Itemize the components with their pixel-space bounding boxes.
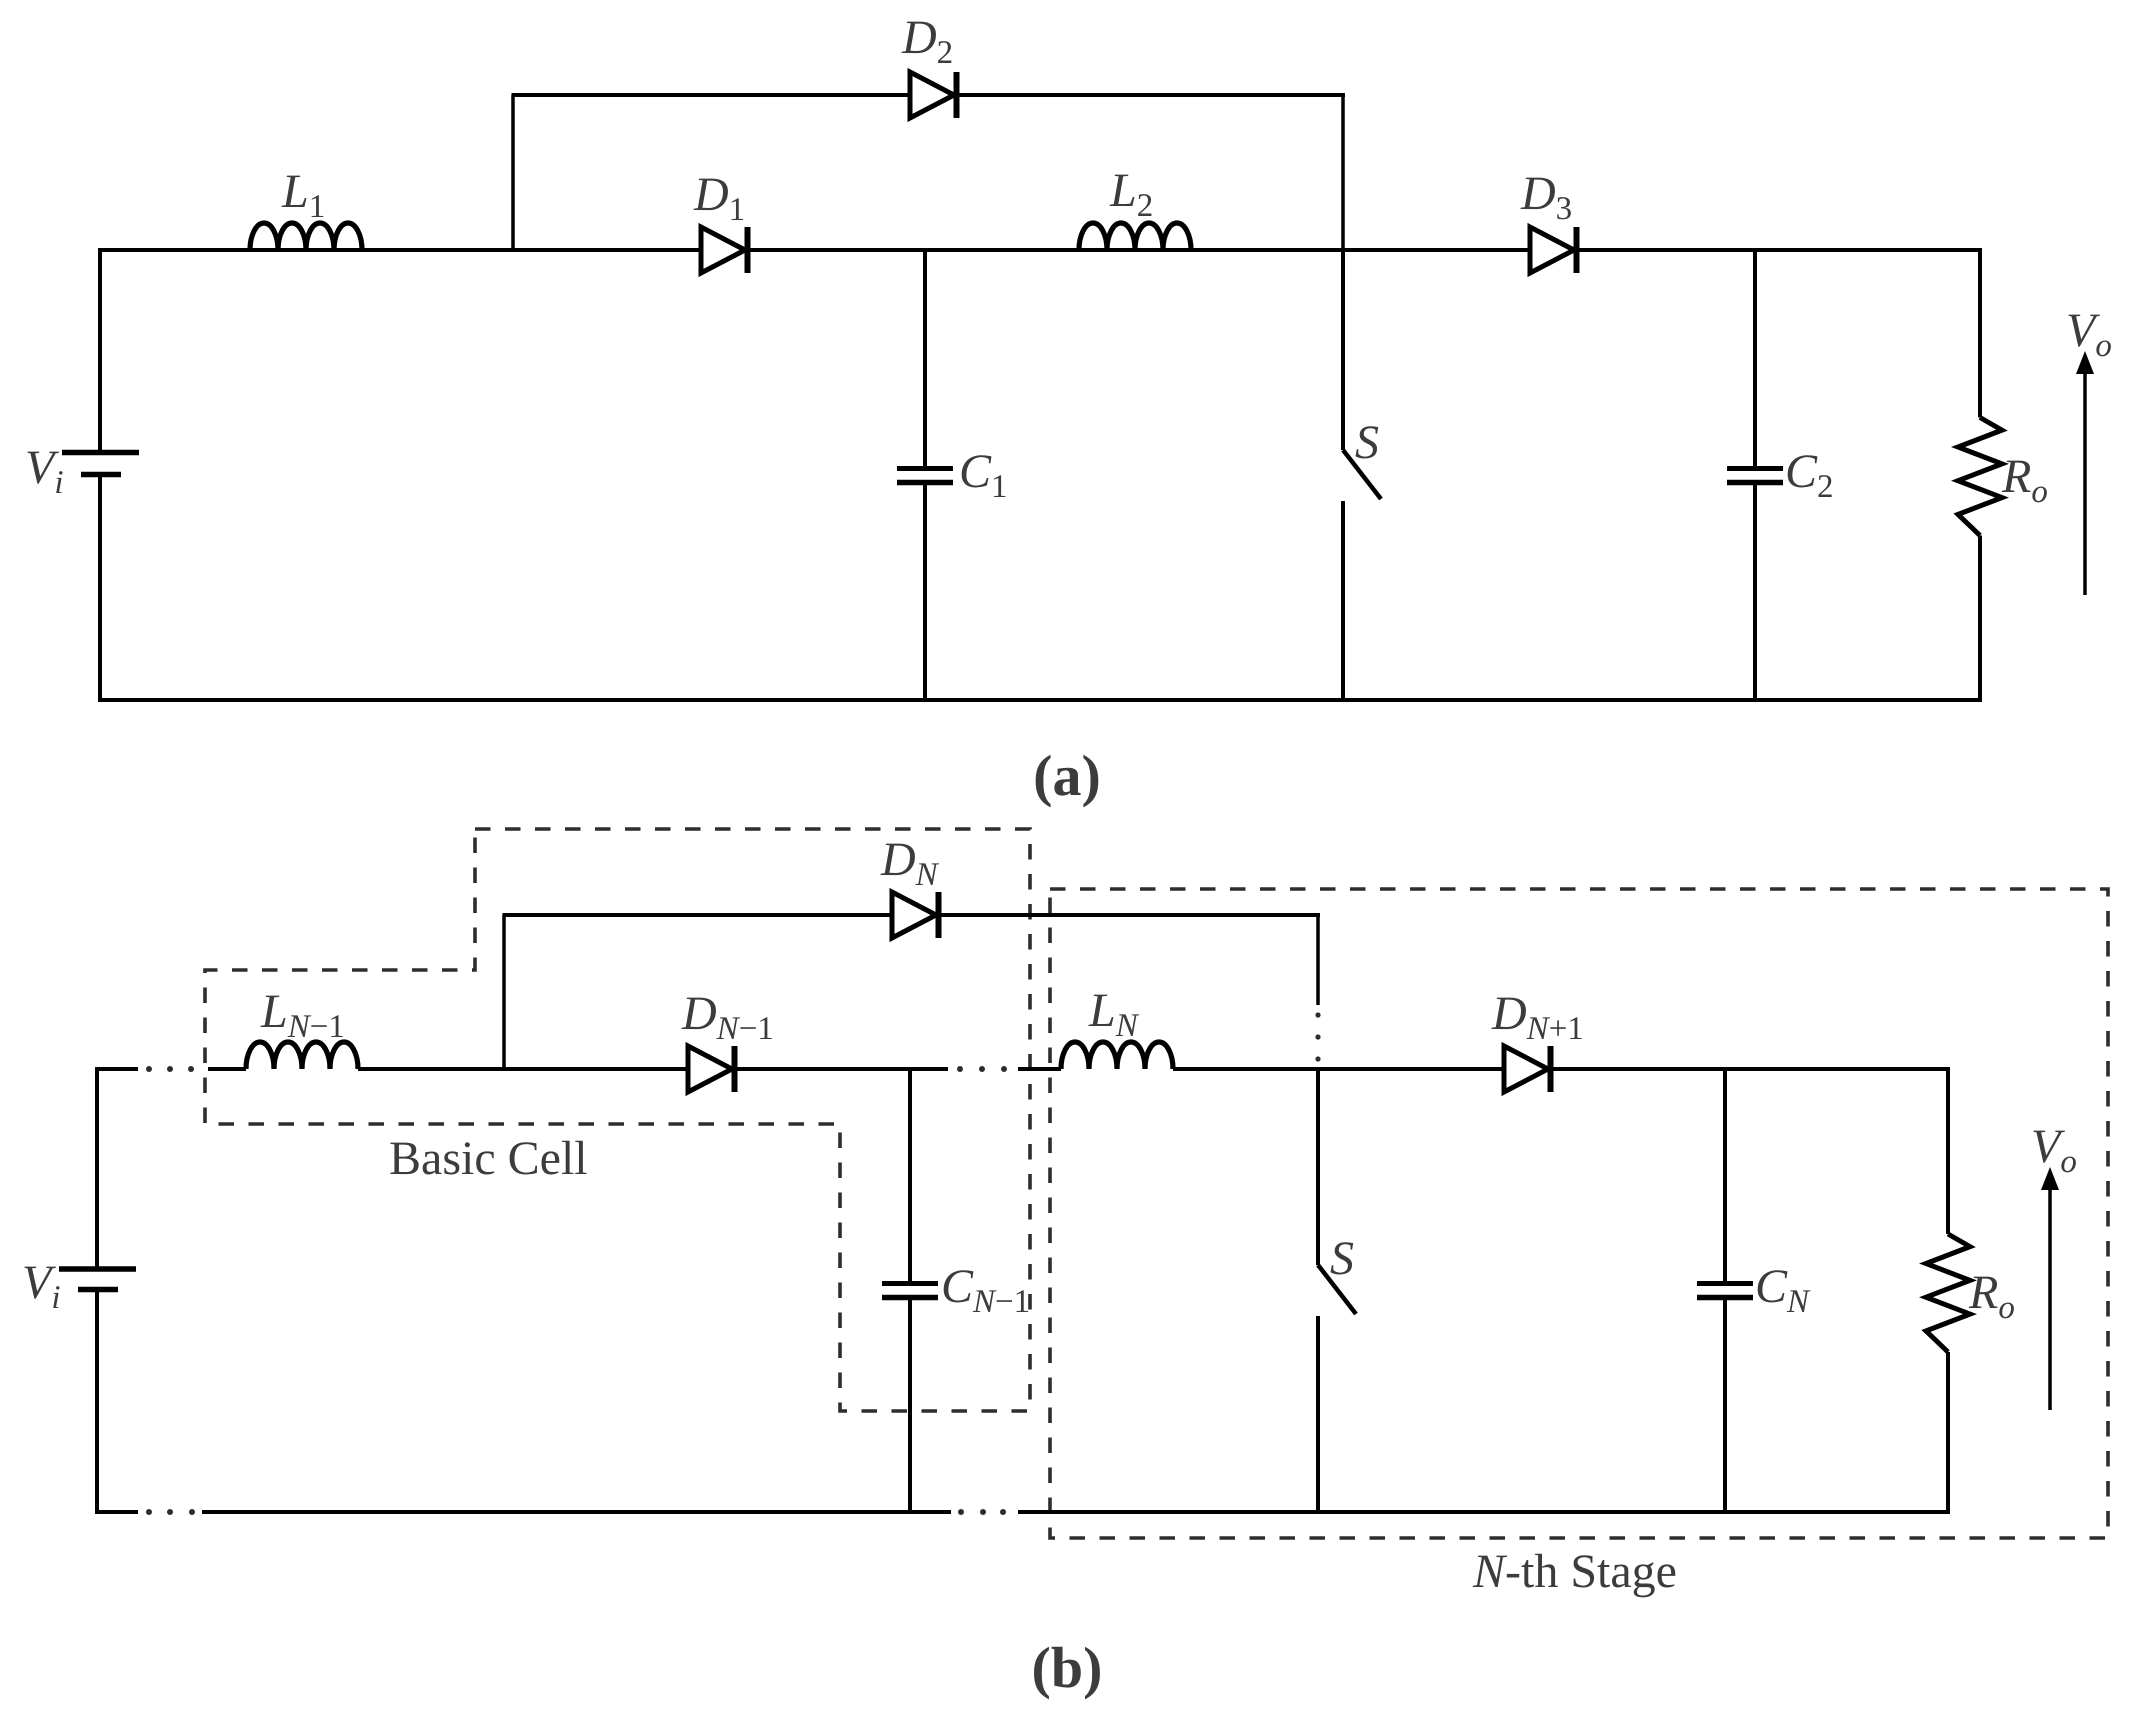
svg-text:Vi: Vi [22, 1256, 61, 1316]
wire (b) top rail seg3 [734, 1067, 948, 1071]
svg-text:Vo: Vo [2066, 304, 2112, 364]
wire (a) D2-branch top left segment [512, 93, 911, 97]
wire (a) left vertical lower [98, 475, 102, 701]
diode D N+1 [1504, 1046, 1551, 1092]
wire (a) D2-branch left vertical [511, 95, 515, 250]
wire (a) Ro top lead [1978, 250, 1982, 418]
svg-text:DN−1: DN−1 [681, 987, 774, 1047]
inductor L N [1061, 1042, 1173, 1069]
wire (b) Ro bottom lead [1946, 1352, 1950, 1512]
svg-text:S: S [1355, 416, 1379, 469]
dots (b) bottom rail mid [958, 1509, 1006, 1515]
svg-text:LN−1: LN−1 [260, 985, 345, 1045]
svg-text:CN−1: CN−1 [941, 1260, 1030, 1320]
arrow Vo (b) [2041, 1167, 2059, 1410]
svg-text:Ro: Ro [2001, 450, 2048, 510]
diode D3 [1530, 227, 1577, 273]
wire (b) top rail seg2 [358, 1067, 688, 1071]
capacitor C2 [1727, 250, 1783, 700]
wire (b) DN-branch top right segment [938, 913, 1320, 917]
svg-text:S: S [1330, 1232, 1354, 1285]
svg-text:D3: D3 [1520, 167, 1572, 227]
svg-text:CN: CN [1755, 1260, 1811, 1320]
dashed box Basic Cell [205, 829, 1030, 1411]
svg-text:Ro: Ro [1968, 1266, 2015, 1326]
svg-text:Vi: Vi [25, 441, 64, 501]
dots (b) DN-branch vertical [1315, 1012, 1320, 1061]
wire (b) left vertical lower [95, 1290, 99, 1513]
wire (b) bottom rail stub left [95, 1510, 138, 1514]
resistor Ro (b) [1926, 1234, 1970, 1352]
wire (b) left vertical upper [95, 1067, 99, 1269]
capacitor C N [1697, 1069, 1753, 1512]
svg-text:DN+1: DN+1 [1491, 987, 1584, 1047]
diode D2 [910, 72, 957, 118]
svg-text:L2: L2 [1109, 164, 1153, 224]
svg-text:(b): (b) [1032, 1635, 1103, 1700]
wire (b) top rail seg1 [208, 1067, 246, 1071]
wire (a) top rail [98, 248, 1982, 252]
wire (b) bottom rail seg2 [1018, 1510, 1950, 1514]
svg-text:DN: DN [880, 833, 940, 893]
svg-text:N-th Stage: N-th Stage [1472, 1545, 1677, 1598]
arrow Vo (a) [2076, 351, 2094, 595]
inductor L2 [1079, 223, 1191, 250]
switch S (b) [1318, 1069, 1356, 1512]
diode D N-1 [688, 1046, 735, 1092]
diode D N [892, 892, 939, 938]
svg-text:C2: C2 [1785, 445, 1834, 505]
battery Vi (b) [59, 1269, 136, 1290]
wire (b) DN-branch left vertical [502, 915, 506, 1069]
diode D1 [701, 227, 748, 273]
switch S (a) [1343, 250, 1381, 700]
svg-text:L1: L1 [281, 165, 325, 225]
dashed box N-th Stage [1050, 889, 2108, 1538]
wire (b) Ro top lead [1946, 1069, 1950, 1234]
dots (b) top rail mid [957, 1066, 1007, 1072]
wire (b) DN-branch right vertical [1316, 915, 1320, 1005]
wire (b) top rail seg5 [1173, 1067, 1504, 1071]
capacitor C1 [897, 250, 953, 700]
battery Vi (a) [62, 453, 139, 475]
resistor Ro (a) [1958, 418, 2002, 536]
inductor L1 [250, 223, 362, 250]
svg-text:D2: D2 [901, 11, 953, 71]
wire (b) top rail seg6 [1550, 1067, 1950, 1071]
wire (b) bottom rail seg1 [202, 1510, 951, 1514]
svg-text:D1: D1 [693, 168, 745, 228]
svg-text:Basic Cell: Basic Cell [389, 1132, 588, 1185]
svg-text:LN: LN [1088, 984, 1140, 1044]
capacitor C N-1 [882, 1069, 938, 1512]
inductor L N-1 [246, 1042, 358, 1069]
svg-text:Vo: Vo [2031, 1120, 2077, 1180]
wire (a) D2-branch top right segment [956, 93, 1345, 97]
wire (b) top rail stub left [95, 1067, 138, 1071]
svg-text:(a): (a) [1033, 743, 1101, 808]
wire (b) top rail seg4 [1018, 1067, 1061, 1071]
wire (a) Ro bottom lead [1978, 536, 1982, 701]
svg-text:C1: C1 [959, 445, 1008, 505]
wire (a) bottom rail [98, 698, 1982, 702]
dots (b) top rail left [146, 1066, 194, 1072]
dots (b) bottom rail left [146, 1509, 195, 1515]
wire (a) left vertical upper [98, 248, 102, 452]
wire (a) D2-branch right vertical [1341, 95, 1345, 250]
wire (b) DN-branch top left segment [503, 913, 893, 917]
